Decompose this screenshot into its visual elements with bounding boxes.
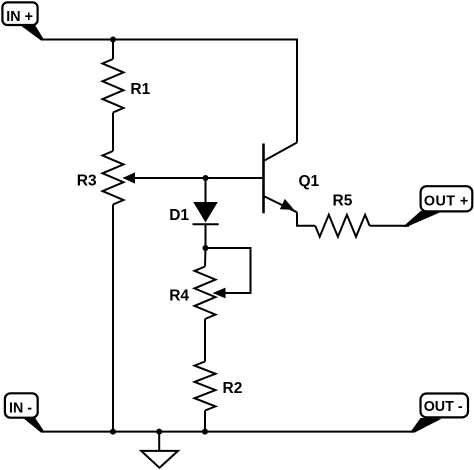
R4 wiper arrowhead bbox=[213, 288, 226, 299]
svg-text:OUT -: OUT - bbox=[424, 399, 463, 415]
junction dot bottom rail at R2 column bbox=[202, 429, 208, 435]
wire R4 top lead bbox=[204, 248, 207, 267]
svg-text:R1: R1 bbox=[130, 81, 150, 98]
wire R3 wiper to node A bbox=[133, 177, 206, 179]
port OUT- bbox=[410, 394, 468, 433]
potentiometer R4 bbox=[195, 267, 216, 320]
svg-text:IN +: IN + bbox=[6, 9, 33, 25]
wire base: node A to Q1 base bbox=[206, 177, 264, 179]
port OUT+ bbox=[403, 186, 472, 227]
svg-text:R4: R4 bbox=[169, 288, 189, 305]
junction dot bottom rail at R3 column bbox=[110, 429, 116, 435]
node B junction dot (D1 / R4 / wiper loop) bbox=[203, 245, 209, 251]
svg-text:OUT +: OUT + bbox=[424, 194, 469, 210]
svg-text:R2: R2 bbox=[223, 380, 243, 397]
potentiometer R3 bbox=[103, 151, 124, 205]
svg-text:R3: R3 bbox=[77, 173, 97, 190]
svg-text:D1: D1 bbox=[169, 207, 189, 224]
wire D1 anode lead bbox=[205, 178, 207, 203]
wire top rail IN+ to collector corner bbox=[44, 40, 298, 143]
wire R4 wiper feedback loop bbox=[206, 248, 251, 293]
wire Q1 emitter to R5 bbox=[297, 212, 315, 226]
transistor Q1 bbox=[264, 143, 298, 214]
port IN+ bbox=[2, 2, 44, 40]
resistor R2 bbox=[195, 362, 216, 411]
port IN- bbox=[5, 393, 45, 432]
svg-text:Q1: Q1 bbox=[299, 173, 320, 190]
wire bottom rail bbox=[44, 431, 412, 433]
wire R1 to R3 bbox=[112, 113, 114, 152]
wire D1 cathode to node B bbox=[205, 224, 207, 248]
node junction dot top rail / R1 bbox=[110, 37, 116, 43]
wire R3 bottom to bottom rail bbox=[112, 205, 114, 432]
wire R5 to OUT+ bbox=[370, 225, 409, 227]
wire R1 top lead bbox=[112, 40, 114, 60]
resistor R1 bbox=[103, 59, 124, 113]
wire R4 to R2 bbox=[204, 319, 206, 362]
wire R2 bottom lead bbox=[204, 411, 206, 432]
ground bbox=[141, 432, 178, 468]
node A junction dot (R3 wiper / D1 / Q1 base) bbox=[203, 175, 209, 181]
junction dot bottom rail at ground bbox=[156, 429, 162, 435]
svg-text:IN -: IN - bbox=[9, 400, 32, 416]
diode D1 bbox=[193, 202, 219, 224]
R3 wiper arrowhead bbox=[123, 172, 136, 183]
resistor R5 bbox=[315, 215, 369, 237]
svg-text:R5: R5 bbox=[333, 193, 353, 210]
